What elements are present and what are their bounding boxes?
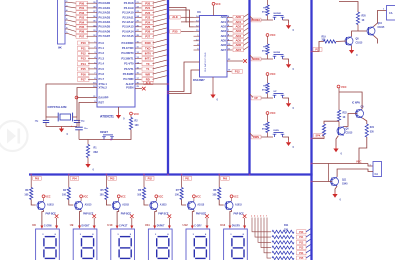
ic U2 AT89C51 — [97, 0, 135, 119]
svg-text:XTAL2: XTAL2 — [99, 86, 108, 90]
no-connect pin display 4 — [168, 214, 172, 228]
svg-text:P23: P23 — [145, 16, 150, 20]
svg-text:Q10: Q10 — [378, 23, 383, 25]
wire R2 to reset node — [117, 130, 131, 140]
svg-text:IC NPN: IC NPN — [352, 103, 360, 105]
no-connect pin display 1 — [55, 214, 59, 228]
svg-text:P1.4: P1.4 — [99, 62, 105, 66]
svg-text:VCC: VCC — [134, 112, 140, 116]
svg-text:P05: P05 — [79, 25, 84, 29]
svg-text:C945: C945 — [342, 183, 348, 186]
net VCC (buzzer) — [337, 85, 347, 110]
svg-text:P2.2/A10: P2.2/A10 — [122, 11, 134, 15]
svg-text:1K: 1K — [343, 117, 346, 119]
transistor Q8 C1815 — [345, 36, 363, 45]
svg-text:VCC: VCC — [216, 3, 221, 6]
svg-text:R21: R21 — [370, 127, 375, 129]
svg-text:CA: CA — [389, 12, 393, 15]
wire XTAL2 — [73, 88, 97, 117]
wire U3 to bus V1 (a) — [169, 62, 200, 92]
display cell 6: resistor R8 100 — [212, 174, 229, 205]
svg-text:100: 100 — [212, 194, 217, 197]
svg-text:P3.3/INT1: P3.3/INT1 — [121, 56, 134, 60]
svg-text:P26: P26 — [145, 30, 150, 34]
svg-text:U13: U13 — [220, 223, 226, 227]
wire Q10 collector to connector — [374, 9, 387, 27]
svg-text:PNP BCE: PNP BCE — [46, 214, 57, 216]
svg-text:P3.0/RXD: P3.0/RXD — [122, 41, 134, 45]
svg-text:C1815: C1815 — [378, 27, 385, 29]
U3 pin19 net P12 — [227, 69, 243, 73]
svg-text:U12: U12 — [183, 223, 189, 227]
wire collector to display 1 — [40, 210, 43, 229]
bus V1 — [167, 0, 169, 175]
ground (crystal) — [59, 127, 69, 137]
button cell UP — [250, 72, 295, 110]
svg-text:A1015: A1015 — [85, 203, 92, 206]
svg-text:T0: T0 — [146, 62, 150, 66]
svg-text:100: 100 — [62, 194, 67, 197]
svg-text:P03: P03 — [110, 177, 115, 180]
svg-text:P1.1: P1.1 — [99, 46, 105, 50]
svg-text:P03: P03 — [79, 16, 84, 20]
wire crystal gnd rail — [46, 126, 77, 128]
resistor R19 330 — [322, 36, 347, 43]
svg-text:100: 100 — [135, 124, 140, 127]
svg-text:DWN: DWN — [274, 130, 280, 132]
svg-text:RST: RST — [99, 100, 105, 104]
wire Q11 base — [313, 164, 332, 182]
svg-text:P22: P22 — [145, 11, 150, 15]
svg-text:P1.6: P1.6 — [99, 72, 105, 76]
resistor R1 8K2 — [86, 140, 98, 163]
connector CON2 (bottom right) — [373, 162, 382, 177]
svg-text:100: 100 — [137, 194, 142, 197]
svg-text:P17: P17 — [315, 49, 320, 52]
svg-text:VCC: VCC — [45, 196, 50, 199]
svg-text:P2.6/A14: P2.6/A14 — [122, 29, 134, 33]
wire reset node — [79, 139, 117, 141]
svg-text:P10: P10 — [81, 41, 86, 45]
display cell 1: resistor R3 100 — [24, 174, 41, 205]
no-connect pin display 6 — [243, 214, 247, 228]
MCU port P1 rows / net labels P10-P17 — [78, 41, 105, 82]
svg-text:MODE: MODE — [274, 52, 281, 54]
svg-text:AD4: AD4 — [221, 34, 227, 38]
svg-text:DVPKT: DVPKT — [157, 226, 165, 228]
net VCC (cell 2) — [80, 195, 89, 201]
svg-text:P3.1/TXD: P3.1/TXD — [122, 46, 134, 50]
transistor Q4 A1015 (PNP) — [150, 201, 169, 216]
svg-text:A1015: A1015 — [47, 203, 54, 206]
svg-text:P0.7/AD7: P0.7/AD7 — [99, 34, 111, 38]
display cell 3: resistor R5 100 — [100, 174, 117, 205]
svg-text:C-GRN: C-GRN — [44, 226, 52, 228]
svg-text:AD3: AD3 — [221, 29, 227, 33]
svg-text:DS12887: DS12887 — [193, 78, 205, 82]
svg-text:P01: P01 — [185, 177, 190, 180]
svg-text:P1.3: P1.3 — [99, 56, 105, 60]
svg-text:A1015: A1015 — [197, 203, 204, 206]
net VCC (cell 1) — [42, 195, 51, 201]
net VCC (EA) — [75, 96, 97, 99]
MCU port P3 rows / net labels RXD..RD — [121, 39, 166, 81]
capacitor C2 — [35, 117, 49, 127]
svg-text:VCC: VCC — [83, 196, 88, 199]
svg-text:RXD: RXD — [145, 41, 151, 45]
transistor Q9 C1815 — [352, 103, 364, 119]
svg-text:P12: P12 — [235, 69, 240, 73]
crystal Y1 — [48, 105, 73, 122]
svg-text:MODE1: MODE1 — [274, 13, 283, 15]
svg-text:P11: P11 — [81, 46, 86, 50]
transistor Q11 C945 — [331, 177, 349, 186]
svg-text:P05: P05 — [35, 177, 40, 180]
svg-text:INT0: INT0 — [145, 52, 152, 56]
svg-text:AD5: AD5 — [235, 38, 241, 42]
wire XTAL1 — [46, 84, 97, 117]
svg-text:P1.0: P1.0 — [99, 41, 105, 45]
display DS1 7-segment — [32, 223, 59, 260]
svg-text:VCC: VCC — [270, 72, 276, 76]
resistor R20 1K — [356, 12, 366, 31]
svg-text:P21: P21 — [145, 6, 150, 10]
net VCC (cell 4) — [155, 195, 164, 201]
capacitor C3 — [74, 117, 85, 127]
svg-text:P00: P00 — [79, 1, 84, 5]
svg-text:PNP BCE: PNP BCE — [158, 214, 169, 216]
svg-text:MODE: MODE — [252, 58, 260, 61]
wire collector to display 2 — [78, 210, 81, 229]
display DS6 7-segment — [220, 223, 247, 260]
svg-text:AD7: AD7 — [235, 48, 241, 52]
svg-text:P15: P15 — [81, 67, 86, 71]
svg-text:T1: T1 — [146, 67, 150, 71]
svg-text:U10: U10 — [107, 223, 113, 227]
svg-text:AT89C51: AT89C51 — [100, 115, 114, 119]
svg-text:P0.5/AD5: P0.5/AD5 — [99, 25, 111, 29]
svg-text:EA/VPP: EA/VPP — [99, 95, 109, 99]
svg-text:P24: P24 — [145, 20, 150, 24]
wire Q9 collector rail — [339, 92, 362, 109]
svg-text:AD1: AD1 — [235, 20, 241, 24]
svg-text:CLK DAT RST GND: CLK DAT RST GND — [204, 52, 207, 72]
svg-text:RESET: RESET — [100, 131, 109, 134]
net VCC (cell 3) — [117, 195, 126, 201]
svg-text:TXD: TXD — [145, 46, 151, 50]
svg-text:P2.0/A8: P2.0/A8 — [124, 1, 134, 5]
wire RST — [79, 103, 97, 127]
svg-text:P13: P13 — [81, 57, 86, 61]
svg-text:P17: P17 — [81, 78, 86, 82]
svg-text:P10: P10 — [299, 232, 304, 234]
ground (Q11) — [332, 186, 341, 201]
svg-text:P12: P12 — [81, 52, 86, 56]
svg-text:U8: U8 — [32, 223, 36, 227]
wire U3 top jogs — [169, 8, 194, 27]
svg-text:AD3: AD3 — [235, 29, 241, 33]
svg-text:DVGKT: DVGKT — [82, 226, 91, 228]
svg-text:PNP BCE: PNP BCE — [83, 214, 94, 216]
svg-text:P07: P07 — [79, 34, 84, 38]
svg-text:UP: UP — [274, 91, 278, 93]
svg-text:U11: U11 — [145, 223, 150, 227]
svg-text:VCC: VCC — [233, 196, 238, 199]
bus V3 — [310, 0, 312, 260]
svg-text:DVGRY: DVGRY — [232, 226, 241, 228]
wire collector to display 5 — [191, 210, 194, 229]
svg-text:A1015: A1015 — [235, 203, 242, 206]
svg-text:C-PKJT: C-PKJT — [119, 226, 128, 228]
svg-text:C1815: C1815 — [346, 133, 353, 135]
svg-text:INT1: INT1 — [145, 57, 152, 61]
display cell 4: resistor R6 100 — [137, 174, 154, 205]
svg-text:P0.0/AD0: P0.0/AD0 — [99, 1, 111, 5]
svg-text:R19: R19 — [322, 36, 327, 38]
svg-text:P27: P27 — [145, 34, 150, 38]
svg-text:8K2: 8K2 — [94, 151, 99, 154]
transistor Q3 A1015 (PNP) — [112, 201, 131, 216]
svg-text:C1815: C1815 — [356, 43, 363, 45]
svg-text:VCC: VCC — [356, 159, 362, 163]
svg-text:AD2: AD2 — [221, 25, 227, 29]
wire Q8 collector — [352, 31, 358, 36]
svg-text:P3.7/RD: P3.7/RD — [123, 77, 133, 81]
svg-text:P20: P20 — [145, 1, 150, 5]
svg-text:P02: P02 — [79, 11, 84, 15]
svg-text:AD2: AD2 — [235, 24, 241, 28]
display DS5 7-segment — [183, 223, 210, 260]
svg-text:AD7: AD7 — [221, 48, 227, 52]
svg-text:CRYSTAL12M: CRYSTAL12M — [48, 105, 68, 109]
svg-text:AD0: AD0 — [221, 15, 227, 19]
connector CON1 (top right) — [387, 6, 395, 21]
svg-text:P01: P01 — [79, 6, 84, 10]
svg-text:ALE/P: ALE/P — [126, 82, 134, 86]
svg-text:100: 100 — [100, 194, 105, 197]
svg-text:AD5: AD5 — [221, 39, 227, 43]
svg-text:P0.3/AD3: P0.3/AD3 — [99, 15, 111, 19]
button RESET — [100, 131, 114, 140]
junction dots — [167, 51, 312, 183]
svg-text:VCC: VCC — [158, 196, 163, 199]
transistor Q6 C1815 — [337, 126, 353, 135]
svg-text:100: 100 — [175, 194, 180, 197]
svg-text:P3.4/T0: P3.4/T0 — [124, 62, 134, 66]
svg-text:1K: 1K — [362, 20, 365, 22]
no-connect PSEN — [135, 87, 146, 91]
resistor R21 330 — [362, 118, 375, 137]
svg-text:PNP BCE: PNP BCE — [121, 214, 132, 216]
U3 pin23 no-connect — [227, 59, 247, 63]
display DS2 7-segment — [70, 223, 97, 260]
display cell 5: resistor R7 100 — [175, 174, 192, 205]
ground (Q8) — [349, 46, 358, 57]
svg-text:WR: WR — [145, 72, 150, 76]
svg-text:P12: P12 — [299, 242, 304, 244]
resistor R23 (speaker net) — [313, 121, 339, 138]
transistor Q10 C1815 — [367, 23, 385, 36]
wire VCC rail (top right) — [339, 2, 358, 13]
resistor R22 1K — [337, 110, 347, 127]
wire R21 to Q11 node — [359, 137, 367, 164]
svg-text:P1.5: P1.5 — [99, 67, 105, 71]
svg-text:PNP BCE: PNP BCE — [234, 214, 245, 216]
svg-text:VCC: VCC — [196, 196, 201, 199]
MCU port P0 rows / net labels P00-P07 — [68, 1, 111, 38]
display DS3 7-segment — [107, 223, 134, 260]
svg-text:U9: U9 — [70, 223, 74, 227]
svg-text:VCC: VCC — [341, 85, 347, 89]
svg-text:VCC: VCC — [270, 33, 276, 37]
svg-text:P14: P14 — [299, 252, 304, 255]
net VCC (cell 6) — [230, 195, 239, 201]
svg-text:+: + — [71, 124, 73, 128]
svg-text:P35: P35 — [173, 29, 178, 33]
button cell DWN — [250, 111, 295, 149]
U3 right AD0-AD7 rows — [221, 14, 249, 52]
svg-text:P2.4/A12: P2.4/A12 — [122, 20, 134, 24]
MCU EA/VPP RST pins — [93, 95, 108, 104]
svg-text:R20: R20 — [362, 16, 367, 18]
svg-text:P0.1/AD1: P0.1/AD1 — [99, 6, 111, 10]
capacitor C4 10u — [71, 124, 88, 140]
svg-text:R11: R11 — [284, 224, 289, 227]
MCU port P2 rows / net labels P20-P27 — [122, 0, 167, 38]
ground (MCU pin20) — [116, 107, 125, 121]
no-connect pin display 3 — [130, 214, 134, 228]
svg-text:P16: P16 — [81, 72, 86, 76]
display cell 2: resistor R4 100 — [62, 174, 79, 205]
svg-text:CA: CA — [375, 173, 379, 176]
svg-text:P1.2: P1.2 — [99, 51, 105, 55]
svg-text:ALE: ALE — [145, 81, 151, 85]
button cell MODE — [250, 33, 295, 71]
transistor Q5 A1015 (PNP) — [187, 201, 206, 216]
MCU XTAL pins — [93, 82, 107, 90]
svg-text:P2.7/A15: P2.7/A15 — [122, 34, 134, 38]
resistor pack RP1 9K — [58, 0, 69, 50]
net VCC (cell 5) — [193, 195, 202, 201]
svg-text:AD1: AD1 — [221, 20, 227, 24]
svg-text:P3.2/INT0: P3.2/INT0 — [121, 51, 134, 55]
wire collector to display 3 — [116, 210, 119, 229]
resistor R2 100 — [129, 112, 139, 130]
ground (U3) — [210, 77, 218, 102]
MCU ALE PSEN pins — [126, 82, 140, 90]
svg-text:A1015: A1015 — [122, 203, 129, 206]
net VCC (U3) — [212, 2, 221, 15]
svg-text:P00: P00 — [223, 177, 228, 180]
wire Q6 collector to Q9 base — [344, 114, 357, 127]
transistor Q1 A1015 (PNP) — [37, 201, 56, 216]
svg-text:100: 100 — [24, 194, 29, 197]
svg-text:P14: P14 — [81, 62, 86, 66]
svg-text:P0.6/AD6: P0.6/AD6 — [99, 29, 111, 33]
wire Q11 collector to CON — [337, 169, 373, 177]
wire VCC to CON (bottom right) — [313, 159, 373, 166]
svg-text:ALE: ALE — [172, 15, 178, 19]
button cell MODE1 — [250, 0, 295, 32]
bus V2 — [248, 0, 250, 175]
svg-text:P2.1/A9: P2.1/A9 — [124, 6, 134, 10]
svg-text:P2.5/A13: P2.5/A13 — [122, 25, 134, 29]
svg-text:MODE1: MODE1 — [252, 19, 262, 22]
svg-text:P25: P25 — [145, 25, 150, 29]
svg-text:P06: P06 — [79, 30, 84, 34]
svg-text:DWN: DWN — [253, 136, 259, 139]
ground (R1) — [85, 162, 94, 172]
U3 left pin wires (ALE, P36, P35) — [170, 15, 200, 51]
transistor Q2 A1015 (PNP) — [75, 201, 94, 216]
svg-text:A1015: A1015 — [160, 203, 167, 206]
svg-text:UP: UP — [254, 97, 258, 100]
svg-text:P2.3/A11: P2.3/A11 — [122, 15, 134, 19]
svg-text:P3.6/WR: P3.6/WR — [123, 72, 134, 76]
svg-text:R22: R22 — [343, 113, 348, 115]
svg-text:P02: P02 — [148, 177, 153, 180]
svg-text:P0.2/AD2: P0.2/AD2 — [99, 11, 111, 15]
svg-text:P04: P04 — [72, 177, 77, 180]
svg-text:P13: P13 — [299, 248, 304, 250]
resistor network R11-R18 — [251, 216, 311, 260]
svg-text:VCC: VCC — [270, 111, 276, 115]
svg-text:C-GRY: C-GRY — [194, 226, 202, 228]
svg-text:P04: P04 — [79, 20, 84, 24]
wire node to Q10 base — [358, 30, 367, 32]
wire ALE — [135, 81, 168, 85]
wire Q10 emitter — [374, 36, 378, 44]
svg-text:P1.7: P1.7 — [99, 77, 105, 81]
ground (Q6) — [333, 136, 342, 156]
bus H1 — [29, 173, 313, 175]
svg-text:AD6: AD6 — [235, 43, 241, 47]
transistor Q6 A1015 (PNP) — [225, 201, 244, 216]
ic U3 DS12887 — [193, 10, 227, 82]
wire P17 to R19 — [313, 42, 324, 52]
svg-text:PNP BCE: PNP BCE — [196, 214, 207, 216]
wire U3 to bus V1 (b) — [169, 70, 200, 94]
svg-text:XTAL1: XTAL1 — [99, 82, 108, 86]
svg-text:P0.4/AD4: P0.4/AD4 — [99, 20, 111, 24]
no-connect pin display 2 — [92, 214, 96, 228]
svg-text:U3: U3 — [197, 10, 201, 14]
svg-text:P3.5/T1: P3.5/T1 — [124, 67, 134, 71]
wire collector to display 6 — [228, 210, 231, 229]
no-connect pin display 5 — [205, 214, 209, 228]
svg-text:AD4: AD4 — [235, 34, 241, 38]
svg-text:PSEN: PSEN — [126, 86, 133, 90]
svg-text:AD0: AD0 — [235, 15, 241, 19]
svg-text:VCC: VCC — [121, 196, 126, 199]
svg-text:SPK: SPK — [316, 135, 321, 138]
display DS4 7-segment — [145, 223, 172, 260]
svg-text:AD6: AD6 — [221, 43, 227, 47]
svg-text:Q11: Q11 — [342, 179, 347, 181]
wire collector to display 4 — [153, 210, 156, 229]
